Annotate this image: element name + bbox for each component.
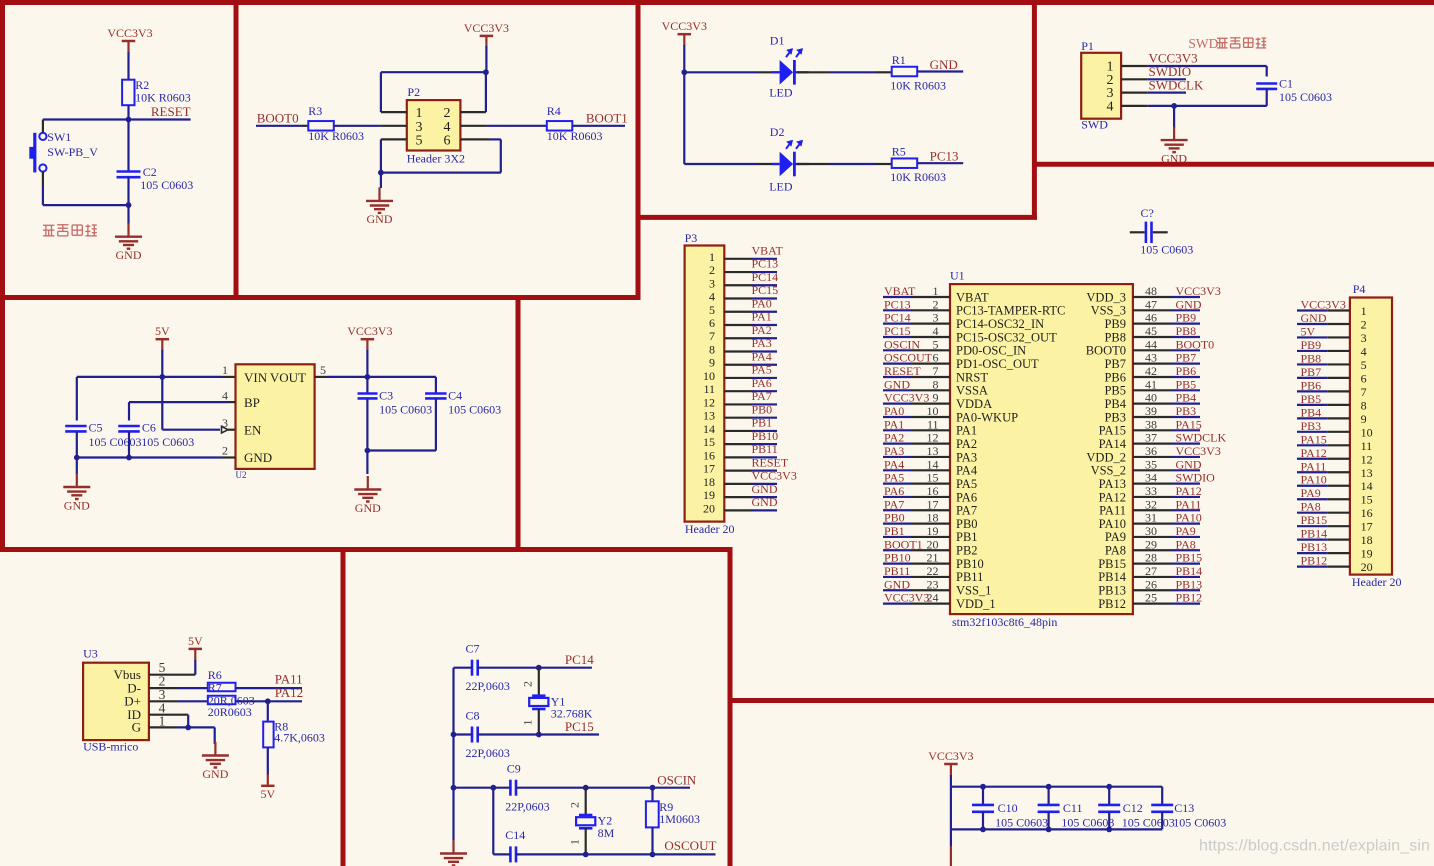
wire down to ground (output) bbox=[366, 451, 368, 475]
svg-text:C?: C? bbox=[1141, 206, 1154, 220]
svg-text:C5: C5 bbox=[89, 421, 103, 435]
svg-text:7: 7 bbox=[1361, 385, 1367, 399]
svg-text:PB15: PB15 bbox=[1301, 513, 1328, 527]
svg-text:6: 6 bbox=[709, 316, 715, 330]
svg-text:RESET: RESET bbox=[752, 455, 789, 469]
pin Y2 top bbox=[585, 788, 587, 815]
net label BOOT0 bbox=[256, 111, 302, 126]
svg-text:16: 16 bbox=[927, 484, 939, 498]
node LED branch junction bbox=[681, 69, 687, 75]
svg-text:17: 17 bbox=[1361, 520, 1373, 534]
wire down to ground (SWD) bbox=[1173, 106, 1175, 128]
svg-text:PB4: PB4 bbox=[1104, 397, 1126, 411]
svg-text:PA2: PA2 bbox=[956, 437, 977, 451]
svg-text:PA1: PA1 bbox=[956, 424, 977, 438]
pin 6 (P3) with net label PA1 bbox=[709, 310, 777, 330]
svg-text:PB8: PB8 bbox=[1301, 351, 1322, 365]
svg-text:PB5: PB5 bbox=[1301, 392, 1322, 406]
annotation SWD interface title bbox=[1188, 36, 1266, 51]
svg-text:P2: P2 bbox=[407, 85, 420, 99]
pin 19 (U1) PB1 with net label PB1 bbox=[883, 524, 978, 544]
wire D1 to R1 bbox=[797, 71, 892, 73]
svg-text:PB7: PB7 bbox=[1301, 365, 1322, 379]
svg-text:6: 6 bbox=[444, 134, 451, 149]
resistor R9 bbox=[646, 788, 700, 828]
svg-text:R4: R4 bbox=[547, 104, 561, 118]
node C11 top junction bbox=[1046, 784, 1052, 790]
pin D+ stub bbox=[149, 700, 208, 702]
wire PA12 to R8 bbox=[267, 701, 269, 721]
pin number 1 (Y1) bbox=[521, 720, 535, 726]
svg-text:22P,0603: 22P,0603 bbox=[505, 800, 549, 814]
svg-text:PA10: PA10 bbox=[1301, 473, 1327, 487]
wire C13 top corner bbox=[1161, 786, 1163, 788]
svg-text:PA0: PA0 bbox=[752, 296, 772, 310]
wire C13 bottom corner bbox=[1161, 828, 1163, 830]
svg-text:105 C0603: 105 C0603 bbox=[1061, 816, 1114, 830]
node OSCIN bus junction bbox=[451, 785, 457, 791]
watermark text bbox=[1199, 838, 1430, 855]
pin 7 (U1) NRST with net label RESET bbox=[883, 364, 988, 384]
node C5 ground junction bbox=[74, 455, 80, 461]
svg-text:VDDA: VDDA bbox=[956, 397, 992, 411]
svg-text:1: 1 bbox=[933, 284, 939, 298]
svg-text:22P,0603: 22P,0603 bbox=[466, 746, 510, 760]
svg-text:PB0: PB0 bbox=[956, 517, 978, 531]
annotation reset circuit title bbox=[43, 224, 97, 235]
switch SW1 SW-PB_V bbox=[29, 130, 98, 172]
svg-text:1: 1 bbox=[222, 363, 228, 377]
svg-text:D1: D1 bbox=[770, 34, 785, 48]
svg-text:SWDIO: SWDIO bbox=[1176, 471, 1216, 485]
node C12 bottom junction bbox=[1106, 827, 1112, 833]
svg-text:7: 7 bbox=[933, 364, 939, 378]
pin number 2 (U2) bbox=[222, 444, 228, 458]
pin number 1 (U2) bbox=[222, 363, 228, 377]
svg-text:PD1-OSC_OUT: PD1-OSC_OUT bbox=[956, 357, 1039, 371]
pin 3 stub bbox=[381, 125, 407, 127]
capacitor C11 bbox=[1038, 787, 1115, 830]
svg-text:VBAT: VBAT bbox=[956, 290, 989, 304]
pin 13 (P3) with net label PB0 bbox=[703, 402, 777, 422]
pin number 4 (U2) bbox=[222, 389, 228, 403]
wire R1 to GND label bbox=[917, 70, 963, 72]
pin 10 (P3) with net label PA5 bbox=[703, 363, 777, 383]
pin 19 (P4) with net label PB13 bbox=[1297, 540, 1373, 561]
svg-text:8M: 8M bbox=[598, 826, 615, 840]
svg-text:17: 17 bbox=[927, 497, 939, 511]
svg-text:12: 12 bbox=[703, 395, 715, 409]
node C8 bus junction bbox=[451, 732, 457, 738]
crystal Y1 bbox=[529, 695, 593, 721]
pin 11 (P3) with net label PA6 bbox=[703, 376, 777, 396]
pin 2 (U1) PC13-TAMPER-RTC with net label PC13 bbox=[883, 297, 1065, 317]
pin 43 (U1) PB7 with net label PB7 bbox=[1104, 351, 1200, 371]
svg-text:PA13: PA13 bbox=[1099, 477, 1126, 491]
svg-text:PB15: PB15 bbox=[1176, 551, 1203, 565]
svg-text:PC13-TAMPER-RTC: PC13-TAMPER-RTC bbox=[956, 304, 1065, 318]
pin number 1 (Y2) bbox=[568, 839, 582, 845]
node Y2 top junction bbox=[583, 785, 589, 791]
svg-text:VCC3V3: VCC3V3 bbox=[928, 749, 973, 763]
svg-text:PC14: PC14 bbox=[565, 652, 594, 667]
pin 34 (U1) PA13 with net label SWDIO bbox=[1099, 471, 1216, 491]
svg-text:VOUT: VOUT bbox=[270, 370, 306, 385]
pin 18 (P3) with net label VCC3V3 bbox=[703, 469, 797, 489]
wire switch bottom to ground node bbox=[43, 172, 129, 205]
node PC15 junction bbox=[536, 732, 542, 738]
svg-text:10K R0603: 10K R0603 bbox=[890, 79, 946, 93]
wire R8 down bbox=[267, 747, 269, 775]
pin 12 (P4) with net label PA12 bbox=[1297, 446, 1373, 467]
pin 17 (P4) with net label PB15 bbox=[1297, 513, 1373, 534]
net label RESET bbox=[151, 104, 191, 119]
pin 5 (P3) with net label PA0 bbox=[709, 296, 777, 316]
svg-text:VSS_2: VSS_2 bbox=[1091, 464, 1126, 478]
svg-text:PA8: PA8 bbox=[1105, 544, 1126, 558]
svg-text:20: 20 bbox=[1361, 560, 1373, 574]
svg-text:C4: C4 bbox=[448, 389, 462, 403]
node C6 ground junction bbox=[126, 455, 132, 461]
svg-text:C9: C9 bbox=[507, 762, 521, 776]
crystal Y2 bbox=[576, 814, 615, 841]
pin 16 (U1) PA6 with net label PA6 bbox=[883, 484, 977, 504]
svg-text:2: 2 bbox=[1361, 317, 1367, 331]
svg-text:GND: GND bbox=[1176, 297, 1202, 311]
svg-text:PB14: PB14 bbox=[1301, 527, 1328, 541]
svg-text:17: 17 bbox=[703, 462, 715, 476]
pin number 1 (U3) bbox=[159, 714, 166, 729]
svg-text:PA9: PA9 bbox=[1176, 524, 1196, 538]
pin 6 stub bbox=[460, 138, 489, 140]
svg-text:GND: GND bbox=[752, 495, 778, 509]
svg-text:PB2: PB2 bbox=[956, 544, 978, 558]
svg-text:6: 6 bbox=[1361, 371, 1367, 385]
node USB ground junction bbox=[185, 725, 191, 731]
svg-text:PB13: PB13 bbox=[1176, 577, 1203, 591]
pin 13 (U1) PA3 with net label PA3 bbox=[883, 444, 977, 464]
wire VCC3V3 down bbox=[366, 350, 368, 394]
pin 30 (U1) PA9 with net label PA9 bbox=[1105, 524, 1200, 544]
svg-text:PA7: PA7 bbox=[752, 389, 772, 403]
pin 17 (P3) with net label RESET bbox=[703, 455, 789, 475]
svg-text:OSCOUT: OSCOUT bbox=[664, 838, 716, 853]
microcontroller U1 stm32f103c8t6_48pin bbox=[950, 269, 1133, 630]
svg-text:4: 4 bbox=[222, 389, 228, 403]
svg-text:12: 12 bbox=[1361, 452, 1373, 466]
wire R5 to PC13 label bbox=[917, 162, 963, 164]
svg-text:GND: GND bbox=[1176, 457, 1202, 471]
svg-text:PB5: PB5 bbox=[1176, 377, 1197, 391]
power VCC3V3 (decoupling) bbox=[928, 749, 973, 776]
wire ground node down bbox=[127, 205, 129, 224]
capacitor C7 bbox=[466, 642, 510, 694]
power VCC3V3 (regulator output) bbox=[347, 324, 392, 351]
svg-text:VBAT: VBAT bbox=[752, 244, 784, 258]
svg-text:PA4: PA4 bbox=[752, 349, 772, 363]
svg-text:4: 4 bbox=[1107, 100, 1114, 115]
wire C9 to OSCIN bbox=[516, 787, 690, 789]
pin ID stub bbox=[149, 714, 188, 716]
svg-text:7: 7 bbox=[709, 329, 715, 343]
svg-text:PA14: PA14 bbox=[1099, 437, 1127, 451]
svg-text:Header 20: Header 20 bbox=[1352, 575, 1402, 589]
svg-text:16: 16 bbox=[703, 448, 715, 462]
svg-text:C13: C13 bbox=[1174, 801, 1194, 815]
svg-text:2: 2 bbox=[521, 681, 535, 687]
resistor R5 bbox=[890, 145, 946, 185]
svg-text:PB9: PB9 bbox=[1176, 311, 1197, 325]
svg-text:PB6: PB6 bbox=[1176, 364, 1197, 378]
svg-text:PB10: PB10 bbox=[752, 429, 779, 443]
svg-text:16: 16 bbox=[1361, 506, 1373, 520]
pin 46 (U1) PB9 with net label PB9 bbox=[1104, 311, 1200, 331]
ground (SWD block) bbox=[1161, 127, 1188, 166]
svg-text:22: 22 bbox=[927, 564, 939, 578]
capacitor C12 bbox=[1098, 787, 1175, 830]
power VCC3V3 (LED block) bbox=[662, 19, 707, 46]
pin 8 (P3) with net label PA3 bbox=[709, 336, 777, 356]
svg-text:VDD_1: VDD_1 bbox=[956, 597, 996, 611]
svg-text:105 C0603: 105 C0603 bbox=[140, 178, 193, 192]
pin 11 (P4) with net label PA15 bbox=[1297, 432, 1372, 453]
svg-text:C12: C12 bbox=[1123, 801, 1143, 815]
wire C4 bottom loop bbox=[367, 399, 436, 451]
svg-text:VSS_3: VSS_3 bbox=[1091, 304, 1126, 318]
svg-text:PB15: PB15 bbox=[1098, 557, 1126, 571]
pin 18 (P4) with net label PB14 bbox=[1297, 527, 1373, 548]
resistor R7 bbox=[208, 696, 236, 705]
value 20R0603 bbox=[208, 705, 252, 719]
svg-text:SWDCLK: SWDCLK bbox=[1149, 78, 1205, 93]
svg-text:PB14: PB14 bbox=[1098, 570, 1127, 584]
wire R7 to PA12 bbox=[236, 700, 303, 702]
pin 1 (P4) with net label VCC3V3 bbox=[1297, 298, 1367, 319]
svg-text:15: 15 bbox=[927, 471, 939, 485]
node SWD ground junction bbox=[1171, 103, 1177, 109]
svg-text:PA15: PA15 bbox=[1099, 424, 1126, 438]
svg-text:105 C0603: 105 C0603 bbox=[995, 816, 1048, 830]
svg-text:VCC3V3: VCC3V3 bbox=[464, 21, 509, 35]
resistor R4 bbox=[547, 104, 603, 143]
svg-text:PA15: PA15 bbox=[1176, 417, 1202, 431]
svg-text:USB-mrico: USB-mrico bbox=[83, 740, 138, 754]
pin 11 (U1) PA1 with net label PA1 bbox=[883, 417, 977, 437]
svg-text:U2: U2 bbox=[236, 470, 247, 480]
wire decoupling left vertical bbox=[950, 787, 952, 830]
pin 16 (P3) with net label PB11 bbox=[703, 442, 778, 462]
svg-text:GND: GND bbox=[367, 212, 393, 226]
wire VCC3V3 down to node bbox=[485, 46, 487, 72]
pin 5 (P4) with net label PB8 bbox=[1297, 351, 1367, 372]
pin 15 (P4) with net label PA9 bbox=[1297, 486, 1373, 507]
svg-text:3: 3 bbox=[222, 416, 228, 430]
pin 12 (P3) with net label PA7 bbox=[703, 389, 777, 409]
svg-text:SWD: SWD bbox=[1188, 36, 1218, 51]
pin 9 (U1) VDDA with net label VCC3V3 bbox=[883, 391, 992, 411]
svg-text:PB12: PB12 bbox=[1176, 591, 1203, 605]
wire C14 left bbox=[493, 853, 510, 855]
capacitor C4 branch bbox=[435, 377, 437, 394]
pin 1 (P3) with net label VBAT bbox=[709, 244, 784, 264]
svg-text:13: 13 bbox=[1361, 466, 1373, 480]
svg-text:PB14: PB14 bbox=[1176, 564, 1203, 578]
svg-text:12: 12 bbox=[927, 431, 939, 445]
svg-text:10: 10 bbox=[1361, 425, 1373, 439]
svg-text:PB7: PB7 bbox=[1176, 351, 1197, 365]
wire decoupling top bus bbox=[951, 786, 1162, 788]
svg-text:GND: GND bbox=[244, 450, 272, 465]
wire ground bus (regulator) bbox=[77, 456, 236, 458]
pin 3 (P4) with net label 5V bbox=[1297, 324, 1367, 345]
wire BP to C6 bbox=[129, 402, 236, 420]
wire R6 to PA11 bbox=[236, 687, 303, 689]
pin EN arrow bbox=[222, 426, 236, 433]
svg-text:GND: GND bbox=[116, 248, 142, 262]
capacitor C5 bbox=[65, 421, 141, 450]
wire to D2 bbox=[684, 163, 779, 165]
resistor R1 bbox=[890, 53, 946, 93]
svg-text:PA3: PA3 bbox=[752, 336, 772, 350]
svg-text:R5: R5 bbox=[892, 145, 906, 159]
pin 7 (P4) with net label PB6 bbox=[1297, 378, 1367, 399]
svg-text:14: 14 bbox=[927, 457, 939, 471]
pin 41 (U1) PB5 with net label PB5 bbox=[1104, 377, 1200, 397]
svg-text:PB6: PB6 bbox=[1301, 378, 1322, 392]
pin 38 (U1) PA15 with net label PA15 bbox=[1099, 417, 1202, 437]
svg-text:stm32f103c8t6_48pin: stm32f103c8t6_48pin bbox=[952, 615, 1057, 629]
pin 1 (U1) VBAT with net label VBAT bbox=[883, 284, 989, 304]
svg-text:PA12: PA12 bbox=[1099, 490, 1126, 504]
svg-text:PB10: PB10 bbox=[956, 557, 984, 571]
wire switch top to RESET bbox=[43, 120, 129, 133]
svg-text:PB6: PB6 bbox=[1104, 370, 1126, 384]
svg-text:GND: GND bbox=[202, 767, 228, 781]
svg-text:PB3: PB3 bbox=[1104, 410, 1126, 424]
svg-text:5V: 5V bbox=[188, 634, 203, 648]
pin 37 (U1) PA14 with net label SWDCLK bbox=[1099, 431, 1227, 451]
pin 22 (U1) PB11 with net label PB11 bbox=[883, 564, 983, 584]
pin 19 (P3) with net label GND bbox=[703, 482, 778, 502]
pin 15 (U1) PA5 with net label PA5 bbox=[883, 471, 977, 491]
net label BOOT1 bbox=[572, 111, 627, 126]
wire bus to C7 bbox=[454, 667, 473, 669]
power 5V (regulator) bbox=[155, 324, 170, 351]
svg-text:3: 3 bbox=[1361, 331, 1367, 345]
svg-text:21: 21 bbox=[927, 551, 939, 565]
svg-text:C8: C8 bbox=[466, 709, 480, 723]
svg-text:Header 20: Header 20 bbox=[685, 522, 735, 536]
pin 44 (U1) BOOT0 with net label BOOT0 bbox=[1086, 337, 1214, 357]
node ground junction (reset) bbox=[126, 202, 132, 208]
pin number 2 (Y1) bbox=[521, 681, 535, 687]
svg-text:PA9: PA9 bbox=[1301, 486, 1321, 500]
pin 29 (U1) PA8 with net label PA8 bbox=[1105, 537, 1200, 557]
pin 4 stub bbox=[460, 125, 486, 127]
svg-text:9: 9 bbox=[709, 356, 715, 370]
pin 1 stub bbox=[381, 111, 407, 113]
wire D2 to R5 bbox=[797, 163, 892, 165]
svg-text:105 C0603: 105 C0603 bbox=[1140, 243, 1193, 257]
svg-text:5V: 5V bbox=[1301, 324, 1316, 338]
svg-text:D2: D2 bbox=[770, 125, 785, 139]
wire pin 6 loop to ground bbox=[381, 139, 501, 172]
node C10 top junction bbox=[980, 784, 986, 790]
wire RESET stub bbox=[129, 118, 191, 120]
svg-text:VCC3V3: VCC3V3 bbox=[1176, 444, 1221, 458]
capacitor C1 bbox=[1256, 77, 1332, 104]
svg-text:VDD_3: VDD_3 bbox=[1086, 290, 1126, 304]
svg-text:11: 11 bbox=[1361, 439, 1373, 453]
svg-text:20R0603: 20R0603 bbox=[208, 705, 252, 719]
ground (boot block) bbox=[366, 187, 393, 226]
wire down to ground bbox=[380, 173, 382, 188]
node boot VCC junction bbox=[483, 69, 489, 75]
svg-text:4: 4 bbox=[1361, 344, 1367, 358]
net label PA12 bbox=[275, 685, 303, 700]
connector P1 SWD bbox=[1081, 39, 1121, 132]
pin 15 (P3) with net label PB10 bbox=[703, 429, 778, 449]
svg-text:PA11: PA11 bbox=[1176, 497, 1202, 511]
svg-text:10K R0603: 10K R0603 bbox=[547, 129, 603, 143]
svg-text:U1: U1 bbox=[950, 269, 965, 283]
svg-text:13: 13 bbox=[927, 444, 939, 458]
wire G to ground bbox=[178, 727, 215, 744]
wire R2 to C2 (RESET net) bbox=[127, 105, 129, 170]
svg-text:10K R0603: 10K R0603 bbox=[308, 129, 364, 143]
svg-text:PA12: PA12 bbox=[1301, 446, 1327, 460]
pin 10 (P4) with net label PB3 bbox=[1297, 419, 1373, 440]
pin 5 (U1) PD0-OSC_IN with net label OSCIN bbox=[883, 337, 1026, 357]
net label PA11 bbox=[275, 672, 303, 687]
pin 2 (P4) with net label GND bbox=[1297, 311, 1367, 332]
svg-text:2: 2 bbox=[709, 263, 715, 277]
wire crystal left bus bbox=[452, 668, 454, 840]
ground (crystal block) bbox=[440, 840, 467, 866]
svg-text:105 C0603: 105 C0603 bbox=[89, 435, 142, 449]
pin number 2 (Y2) bbox=[568, 802, 582, 808]
resistor R2 bbox=[122, 78, 191, 105]
svg-text:PA8: PA8 bbox=[1176, 537, 1196, 551]
svg-text:PB8: PB8 bbox=[1104, 330, 1126, 344]
node R9 bottom junction bbox=[650, 852, 656, 858]
connector U3 USB-micro bbox=[83, 647, 149, 754]
pin 1 stub (P1) bbox=[1121, 65, 1147, 67]
capacitor C8 bbox=[466, 709, 510, 761]
svg-text:PC15: PC15 bbox=[565, 719, 594, 734]
pin 12 (U1) PA2 with net label PA2 bbox=[883, 431, 977, 451]
svg-text:P3: P3 bbox=[685, 231, 698, 245]
node Y2 bottom junction bbox=[583, 852, 589, 858]
svg-text:PB4: PB4 bbox=[1176, 391, 1197, 405]
svg-text:PB3: PB3 bbox=[1301, 419, 1322, 433]
svg-text:SWDCLK: SWDCLK bbox=[1176, 431, 1227, 445]
wire R9 bottom bbox=[651, 827, 653, 854]
pin 47 (U1) VSS_3 with net label GND bbox=[1091, 297, 1202, 317]
svg-text:19: 19 bbox=[927, 524, 939, 538]
svg-text:NRST: NRST bbox=[956, 370, 988, 384]
pin 6 (P4) with net label PB7 bbox=[1297, 365, 1367, 386]
pin Y1 top bbox=[538, 668, 540, 696]
pin 10 (U1) PA0-WKUP with net label PA0 bbox=[883, 404, 1018, 424]
pin 16 (P4) with net label PA8 bbox=[1297, 500, 1373, 521]
wire right down to pin 2 bbox=[485, 72, 487, 112]
node 5V junction bbox=[159, 374, 165, 380]
power VCC3V3 (reset block) bbox=[107, 26, 152, 53]
power 5V (USB) bbox=[188, 634, 203, 661]
svg-text:1M0603: 1M0603 bbox=[659, 812, 700, 826]
svg-text:3: 3 bbox=[709, 276, 715, 290]
